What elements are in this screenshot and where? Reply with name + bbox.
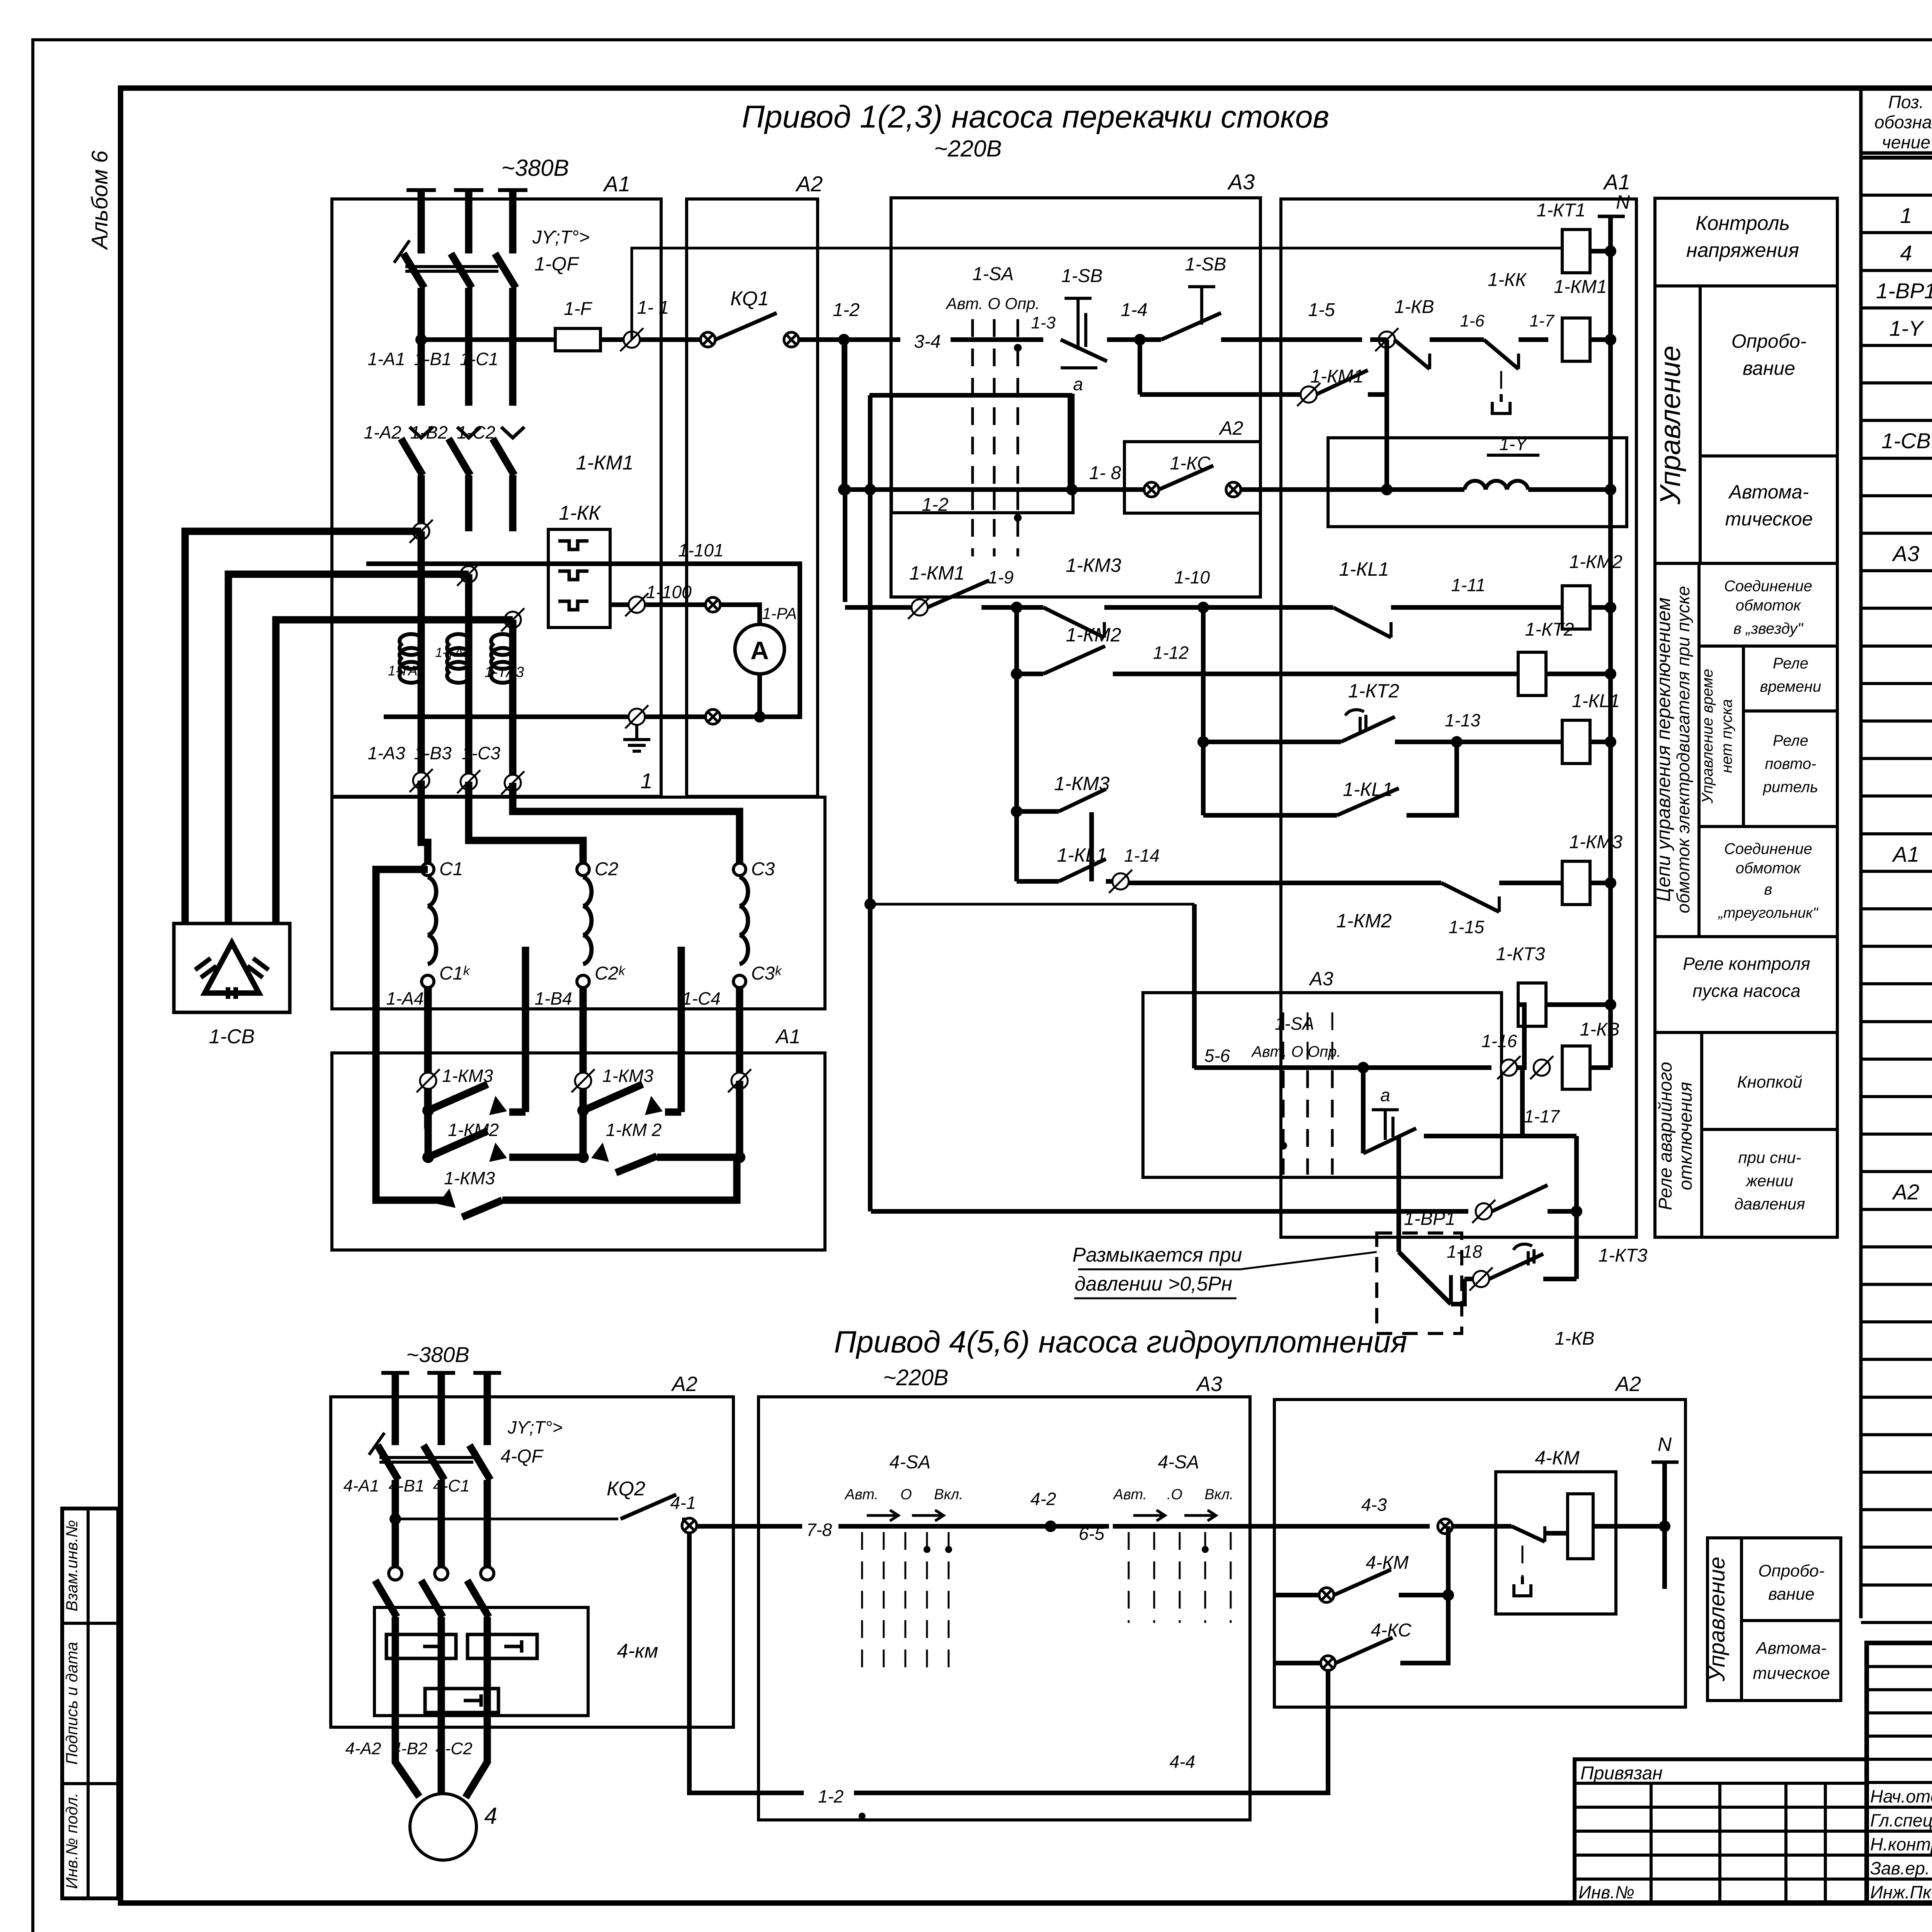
svg-text:1-SА: 1-SА	[973, 264, 1014, 284]
svg-text:А1: А1	[775, 1026, 801, 1048]
svg-text:пуска насоса: пуска насоса	[1692, 981, 1800, 1001]
svg-text:обозна-: обозна-	[1874, 112, 1932, 132]
svg-text:1-В3: 1-В3	[414, 743, 452, 763]
ground symbol	[635, 725, 638, 740]
svg-text:1-РА: 1-РА	[762, 604, 797, 622]
title block	[1867, 1643, 1932, 1903]
svg-text:1-10: 1-10	[1174, 567, 1210, 587]
svg-text:Автома-: Автома-	[1755, 1639, 1827, 1658]
svg-text:1-КТ2: 1-КТ2	[1525, 619, 1574, 640]
1-KM1 seal contact row	[1138, 340, 1142, 395]
svg-text:4-С1: 4-С1	[433, 1476, 469, 1495]
label block: Kontrol napryazheniya	[1655, 198, 1837, 286]
box A2 right	[1274, 1400, 1685, 1707]
svg-text:1-В2: 1-В2	[410, 422, 447, 442]
svg-text:4-QF: 4-QF	[500, 1446, 544, 1467]
svg-text:1-КL1: 1-КL1	[1343, 779, 1393, 800]
motor 4	[395, 1727, 419, 1797]
svg-text:обмоток: обмоток	[1736, 860, 1802, 877]
svg-text:1-КМ2: 1-КМ2	[1569, 552, 1622, 572]
capacitor unit 1-SV	[174, 923, 290, 1012]
svg-text:N: N	[1616, 191, 1630, 213]
svg-text:Привязан: Привязан	[1580, 1763, 1663, 1784]
svg-text:4-2: 4-2	[1031, 1489, 1056, 1509]
svg-text:А1: А1	[1603, 170, 1631, 194]
1-18 row KT3 contact	[1451, 1279, 1464, 1304]
svg-text:4-4: 4-4	[1170, 1752, 1195, 1772]
svg-text:тическое: тическое	[1753, 1664, 1830, 1683]
svg-text:1-КВ: 1-КВ	[1555, 1328, 1595, 1349]
current transformers 1-TA1..3	[400, 634, 421, 655]
svg-text:повто-: повто-	[1765, 755, 1816, 772]
svg-text:6-5: 6-5	[1079, 1524, 1105, 1544]
1-KM1 coil	[1562, 318, 1590, 361]
svg-text:Нач.отд: Нач.отд	[1870, 1786, 1932, 1806]
1-KT2 coil	[1518, 652, 1546, 696]
svg-text:1-9: 1-9	[988, 567, 1014, 587]
svg-text:1-SВ: 1-SВ	[1185, 254, 1226, 275]
svg-text:„треугольник": „треугольник"	[1718, 905, 1818, 921]
svg-text:1-КL1: 1-КL1	[1339, 558, 1389, 580]
svg-text:1-КL1: 1-КL1	[1572, 691, 1620, 711]
svg-text:Контроль: Контроль	[1696, 212, 1790, 235]
svg-text:Реле: Реле	[1773, 655, 1808, 672]
svg-text:1-2: 1-2	[833, 300, 859, 320]
breaker 1-QF	[403, 253, 424, 288]
wires to 1-SV capacitor unit	[185, 531, 421, 923]
4-KM block box	[374, 1607, 588, 1716]
ammeter 1-RA	[735, 624, 784, 674]
winding return wires with slashes	[425, 988, 432, 1111]
supply terminals drive4	[381, 1371, 409, 1375]
svg-text:1-Y: 1-Y	[1889, 316, 1924, 340]
bottom row 1-2 / 4-4	[689, 1532, 804, 1793]
svg-text:А1: А1	[1892, 842, 1920, 866]
A2 sub box with 1-KC	[1124, 442, 1260, 513]
svg-text:Авт.: Авт.	[844, 1486, 879, 1503]
svg-text:Цепи управления переключением: Цепи управления переключением	[1653, 597, 1674, 902]
svg-text:7-8: 7-8	[806, 1520, 832, 1540]
svg-text:Реле: Реле	[1773, 732, 1808, 749]
svg-text:4-SА: 4-SА	[1158, 1452, 1199, 1473]
svg-text:КQ2: КQ2	[607, 1478, 645, 1500]
svg-text:ритель: ритель	[1763, 779, 1818, 796]
label block: tsepi upravleniya	[1655, 563, 1837, 937]
svg-text:1-С1: 1-С1	[460, 349, 498, 369]
svg-text:1-СВ: 1-СВ	[209, 1026, 255, 1048]
components table grid	[1859, 88, 1863, 1618]
V1b riser	[868, 395, 872, 1211]
svg-text:1-3: 1-3	[1031, 313, 1056, 332]
connection lines A3 to left	[733, 1524, 759, 1529]
supply terminals	[406, 188, 436, 192]
svg-text:С3ᵏ: С3ᵏ	[751, 963, 782, 984]
svg-text:А1: А1	[603, 172, 631, 196]
svg-text:1: 1	[1900, 203, 1912, 228]
svg-text:в: в	[1764, 881, 1772, 898]
svg-text:вание: вание	[1768, 1585, 1815, 1604]
svg-text:1-КМ1: 1-КМ1	[1554, 277, 1607, 297]
svg-text:1-15: 1-15	[1449, 917, 1484, 937]
box A3 top	[891, 198, 1260, 597]
svg-text:Взам.инв.№: Взам.инв.№	[63, 1520, 81, 1611]
svg-text:1-КМ 2: 1-КМ 2	[606, 1120, 662, 1140]
svg-text:N: N	[1658, 1434, 1672, 1455]
svg-text:1-КМ2: 1-КМ2	[1336, 910, 1392, 932]
svg-text:1- 8: 1- 8	[1089, 463, 1121, 483]
slash nodes to capacitor bank	[413, 523, 429, 539]
thermal relay 1-KK heater box	[548, 529, 610, 628]
vertical join 4080	[1574, 1136, 1579, 1279]
svg-text:Реле аварийного: Реле аварийного	[1655, 1062, 1676, 1210]
1-KK release dashed + symbol	[1500, 371, 1502, 394]
svg-text:5-6: 5-6	[1204, 1046, 1230, 1066]
svg-text:А2: А2	[671, 1372, 697, 1396]
row R3 KT2 contact	[1201, 607, 1206, 815]
svg-text:Авт. О Опр.: Авт. О Опр.	[945, 294, 1040, 313]
svg-text:1-КМ3: 1-КМ3	[602, 1066, 653, 1086]
motor stator box 1	[332, 797, 825, 1009]
svg-text:Зав.ер.: Зав.ер.	[1870, 1858, 1930, 1878]
svg-text:Подпись и дата: Подпись и дата	[63, 1642, 81, 1765]
svg-text:Инв.№: Инв.№	[1578, 1882, 1634, 1902]
privyazan block	[1575, 1759, 1867, 1903]
svg-text:тическое: тическое	[1725, 508, 1813, 530]
svg-text:А2: А2	[1614, 1372, 1641, 1396]
svg-text:1-В4: 1-В4	[534, 988, 572, 1009]
svg-text:Авт. О Опр.: Авт. О Опр.	[1251, 1043, 1341, 1060]
svg-text:Опробо-: Опробо-	[1731, 330, 1807, 352]
svg-text:А2: А2	[795, 172, 823, 196]
svg-text:Н.контр.: Н.контр.	[1870, 1834, 1932, 1854]
svg-text:~220В: ~220В	[883, 1365, 948, 1390]
svg-text:1-12: 1-12	[1153, 643, 1189, 663]
svg-text:1-КМ3: 1-КМ3	[444, 1168, 495, 1188]
svg-text:1-КТ3: 1-КТ3	[1496, 944, 1545, 964]
svg-text:1-ТА2: 1-ТА2	[435, 645, 471, 660]
svg-text:~380В: ~380В	[501, 155, 569, 181]
svg-text:С2: С2	[595, 859, 618, 879]
box A3 lower	[1143, 993, 1502, 1177]
label block: Upravlenie (top)	[1655, 286, 1837, 563]
svg-text:жении: жении	[1745, 1172, 1793, 1190]
svg-text:1-А1: 1-А1	[367, 349, 405, 369]
svg-text:1-КТ3: 1-КТ3	[1599, 1245, 1648, 1266]
svg-text:Альбом 6: Альбом 6	[87, 150, 112, 250]
svg-text:1-100: 1-100	[646, 582, 692, 602]
svg-text:3-4: 3-4	[914, 332, 940, 352]
1-KM3 coil	[1562, 861, 1590, 905]
svg-text:О: О	[900, 1486, 912, 1503]
1-KT1 coil	[1562, 230, 1590, 273]
left stamp boxes	[62, 1509, 118, 1898]
svg-text:чение: чение	[1882, 132, 1930, 152]
label block drive4	[1708, 1538, 1841, 1701]
svg-text:1-4: 1-4	[1121, 300, 1147, 320]
line 2	[838, 484, 850, 495]
svg-text:1-14: 1-14	[1124, 845, 1160, 866]
svg-text:1-КМ3: 1-КМ3	[1569, 832, 1622, 852]
svg-text:1-КТ2: 1-КТ2	[1348, 680, 1399, 702]
label block: rele avariynogo	[1655, 1032, 1837, 1237]
svg-text:1-2: 1-2	[818, 1786, 844, 1806]
svg-text:1-КВ: 1-КВ	[1580, 1019, 1620, 1040]
V1a riser from 1-2	[843, 340, 847, 602]
svg-text:1- 1: 1- 1	[637, 298, 669, 318]
svg-text:1-КМ3: 1-КМ3	[1066, 554, 1121, 576]
svg-text:1-КВ: 1-КВ	[1395, 297, 1434, 317]
svg-text:при сни-: при сни-	[1738, 1148, 1801, 1167]
svg-text:1-А4: 1-А4	[386, 988, 423, 1009]
svg-text:1-6: 1-6	[1460, 311, 1485, 330]
line to 1-KT1	[632, 248, 1562, 340]
svg-text:С1: С1	[439, 859, 463, 879]
svg-text:А3: А3	[1308, 968, 1333, 990]
delta-star contact box (bottom A1)	[332, 1053, 825, 1250]
svg-text:~380В: ~380В	[406, 1342, 469, 1367]
svg-text:1-11: 1-11	[1451, 575, 1486, 595]
box A2 left	[331, 1397, 733, 1727]
svg-text:Управление: Управление	[1654, 345, 1686, 505]
svg-text:1-А3: 1-А3	[367, 743, 405, 763]
box A1 right (coils)	[1281, 199, 1636, 1237]
svg-text:Поз.: Поз.	[1888, 92, 1924, 112]
svg-text:1-А2: 1-А2	[364, 422, 401, 442]
1-KM2 coil	[1562, 586, 1590, 629]
svg-text:1-13: 1-13	[1445, 710, 1480, 730]
svg-text:1-КМ2: 1-КМ2	[1066, 624, 1121, 646]
svg-text:Автома-: Автома-	[1728, 481, 1809, 503]
svg-text:Размыкается при: Размыкается при	[1072, 1244, 1242, 1266]
row R2	[1014, 607, 1019, 866]
svg-text:Кнопкой: Кнопкой	[1737, 1073, 1803, 1092]
KQ2 control row	[395, 1518, 618, 1520]
svg-text:1-В1: 1-В1	[414, 349, 451, 369]
phase drop below slash nodes	[418, 531, 425, 781]
node phase A control tap	[415, 334, 427, 345]
svg-text:1-ВР1: 1-ВР1	[1876, 279, 1932, 303]
svg-text:напряжения: напряжения	[1686, 239, 1799, 262]
svg-text:КQ1: КQ1	[730, 287, 769, 310]
svg-text:1-КМ1: 1-КМ1	[909, 562, 964, 584]
svg-text:4-1: 4-1	[670, 1493, 696, 1513]
svg-text:4-В1: 4-В1	[389, 1476, 425, 1495]
svg-text:4: 4	[484, 1803, 497, 1829]
slash nodes bottom of A1 box	[413, 772, 429, 789]
svg-text:1-ТА1: 1-ТА1	[388, 663, 425, 679]
feed line to lower A3 box	[870, 903, 1194, 906]
svg-text:4-км: 4-км	[617, 1640, 658, 1662]
svg-text:4-А2: 4-А2	[345, 1739, 381, 1758]
svg-text:1: 1	[640, 769, 652, 793]
svg-text:1-17: 1-17	[1524, 1106, 1560, 1126]
svg-text:Авт.: Авт.	[1113, 1486, 1147, 1503]
svg-text:1-С2: 1-С2	[457, 422, 495, 442]
svg-text:вание: вание	[1743, 357, 1795, 379]
4-KM power contacts	[389, 1513, 401, 1525]
svg-text:Соединение: Соединение	[1724, 578, 1812, 595]
1-Y circuit	[1328, 438, 1627, 527]
svg-text:Jϒ;Т°>: Jϒ;Т°>	[532, 227, 590, 248]
wire to A2 right	[1250, 1524, 1430, 1529]
svg-text:Соединение: Соединение	[1724, 840, 1812, 857]
svg-text:обмоток электродвигателя при п: обмоток электродвигателя при пуске	[1673, 586, 1693, 913]
svg-text:1-18: 1-18	[1447, 1242, 1482, 1262]
svg-text:1-С4: 1-С4	[682, 988, 721, 1009]
svg-text:А3: А3	[1892, 541, 1920, 566]
svg-text:1-QF: 1-QF	[534, 253, 579, 275]
1-KL1 coil	[1562, 720, 1590, 764]
svg-text:1-16: 1-16	[1481, 1031, 1517, 1051]
svg-text:С3: С3	[751, 859, 775, 879]
inner box	[891, 395, 1073, 513]
svg-text:4-SА: 4-SА	[889, 1452, 931, 1473]
box A1 left	[332, 199, 661, 796]
svg-text:1-Y: 1-Y	[1499, 434, 1528, 454]
svg-text:А3: А3	[1227, 170, 1255, 194]
svg-text:обмоток: обмоток	[1736, 597, 1802, 614]
svg-text:1-КК: 1-КК	[559, 502, 602, 524]
svg-text:давления: давления	[1734, 1195, 1805, 1213]
svg-text:1-101: 1-101	[678, 540, 724, 560]
label block: rele kontrolya	[1655, 937, 1837, 1032]
svg-text:Привод 4(5,6) насоса гидроупл: Привод 4(5,6) насоса гидроуплотнения	[834, 1325, 1407, 1359]
svg-text:нет пуска: нет пуска	[1718, 699, 1735, 773]
svg-text:А2: А2	[1892, 1180, 1920, 1204]
svg-text:С1ᵏ: С1ᵏ	[439, 963, 470, 984]
svg-text:Инж.Пк.: Инж.Пк.	[1870, 1882, 1932, 1902]
svg-text:1-5: 1-5	[1308, 300, 1335, 320]
svg-text:1-ТА3: 1-ТА3	[485, 664, 524, 680]
svg-text:4-А1: 4-А1	[344, 1476, 379, 1495]
svg-text:А: А	[750, 636, 769, 665]
svg-text:4-3: 4-3	[1361, 1495, 1387, 1515]
svg-text:1-КТ1: 1-КТ1	[1537, 200, 1586, 221]
svg-text:Вкл.: Вкл.	[1204, 1486, 1233, 1503]
svg-text:1-SВ: 1-SВ	[1061, 266, 1103, 286]
svg-text:.О: .О	[1167, 1486, 1182, 1503]
svg-text:Гл.спец.: Гл.спец.	[1870, 1810, 1932, 1830]
svg-text:Jϒ;Т°>: Jϒ;Т°>	[507, 1417, 563, 1437]
svg-text:отключения: отключения	[1675, 1082, 1696, 1190]
box A2 (KQ1)	[687, 199, 818, 796]
contactor 1-KM1 power contacts	[410, 427, 433, 438]
1-KV coil	[1562, 1046, 1590, 1089]
svg-text:4: 4	[1900, 241, 1912, 265]
fuse 1-F	[555, 328, 600, 351]
svg-text:Инв.№ подл.: Инв.№ подл.	[63, 1793, 81, 1889]
svg-text:4-КМ: 4-КМ	[1535, 1447, 1580, 1469]
svg-text:1-СВ: 1-СВ	[1881, 429, 1931, 453]
svg-text:1-7: 1-7	[1529, 311, 1554, 330]
stator windings C1 C2 C3	[421, 825, 428, 864]
svg-text:а: а	[1073, 374, 1083, 394]
svg-text:в „звезду": в „звезду"	[1733, 620, 1804, 637]
box A3 drive4	[759, 1397, 1250, 1820]
svg-text:Привод 1(2,3) насоса перека: Привод 1(2,3) насоса перекачки стоков	[742, 99, 1329, 134]
svg-text:Опробо-: Опробо-	[1758, 1561, 1824, 1580]
svg-text:Реле контроля: Реле контроля	[1683, 954, 1810, 974]
svg-text:А2: А2	[1218, 417, 1243, 439]
1-KT3 coil	[1518, 983, 1546, 1026]
svg-text:Вкл.: Вкл.	[934, 1486, 963, 1503]
svg-text:А3: А3	[1196, 1372, 1222, 1396]
svg-text:~220В: ~220В	[934, 136, 1002, 162]
svg-text:давлении >0,5Рн: давлении >0,5Рн	[1075, 1273, 1232, 1295]
svg-text:а: а	[1380, 1085, 1390, 1105]
svg-text:1-F: 1-F	[564, 299, 593, 319]
breaker 4-QF	[378, 1445, 398, 1480]
delta feed verticals	[522, 947, 529, 1112]
svg-text:1-КК: 1-КК	[1488, 270, 1527, 290]
svg-text:времени: времени	[1760, 678, 1821, 695]
svg-text:1-КМ1: 1-КМ1	[576, 452, 633, 474]
svg-text:Управление време: Управление време	[1699, 669, 1716, 804]
svg-text:Управление: Управление	[1704, 1557, 1730, 1682]
svg-text:1-С3: 1-С3	[462, 743, 500, 763]
svg-text:С2ᵏ: С2ᵏ	[595, 963, 626, 984]
